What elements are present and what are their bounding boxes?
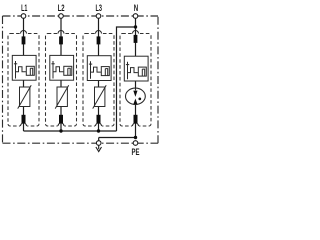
disconnector F9 (thermal, branch 4 bottom)	[134, 115, 138, 124]
module M1 enclosure (dashed box)	[8, 34, 39, 127]
wire N to common-bus bypass	[117, 27, 136, 131]
spark gap U4 (triggered spark gap with control circuit, branch 4)	[124, 56, 148, 81]
module M2 enclosure (dashed box)	[46, 34, 77, 127]
svg-text:L1: L1	[21, 3, 27, 13]
svg-text:PE: PE	[132, 147, 140, 157]
disconnector F4 (thermal, branch 4 top)	[134, 35, 138, 43]
spark gap U1 (triggered spark gap with control circuit, branch 1)	[12, 55, 36, 80]
wire PE line	[99, 137, 136, 139]
node bus-branch2 junction	[59, 129, 62, 132]
wire L3 branch vertical	[98, 18, 100, 131]
hop of module edge over branch 2 wire (top)	[58, 31, 64, 34]
module M4 enclosure (dashed box)	[120, 34, 151, 127]
disconnector F3 (thermal, branch 3 top)	[97, 36, 101, 44]
hop of module edge over branch 4 wire (top)	[133, 31, 139, 34]
device enclosure boundary (dash-dot)	[3, 16, 159, 143]
spark gap U3 (triggered spark gap with control circuit, branch 3)	[87, 56, 111, 81]
white gaps where wires hop module edges	[20, 32, 139, 127]
varistor RV1 (branch 1)	[18, 85, 32, 108]
varistor RV3 (branch 3)	[93, 85, 107, 108]
node N junction dot	[134, 25, 137, 28]
svg-text:L3: L3	[96, 3, 103, 13]
hop of module edge over branch 1 wire (top)	[21, 31, 27, 34]
disconnector F6 (thermal, branch 1 bottom)	[22, 115, 26, 124]
terminal earth	[96, 141, 101, 146]
svg-text:N: N	[134, 3, 138, 13]
disconnector F1 (thermal, branch 1 top)	[22, 36, 26, 44]
terminal L3	[96, 14, 101, 19]
hop of module edge over branch 1 wire (bottom)	[21, 123, 27, 126]
varistor RV2 (branch 2)	[55, 85, 68, 108]
hop of module edge over branch 4 wire (bottom)	[133, 123, 139, 126]
terminal PE	[133, 141, 138, 146]
module M3 enclosure (dashed box)	[83, 34, 114, 127]
wire earth drop	[98, 138, 100, 141]
terminal N	[133, 14, 138, 19]
disconnector F2 (thermal, branch 2 top)	[59, 36, 63, 44]
terminal L1	[21, 14, 26, 19]
disconnector F7 (thermal, branch 2 bottom)	[59, 115, 63, 124]
disconnector F8 (thermal, branch 3 bottom)	[97, 115, 101, 124]
N-PE spark gap F5 (encapsulated, branch 4)	[125, 88, 145, 104]
spark gap U2 (triggered spark gap with control circuit, branch 2)	[50, 55, 74, 80]
wire common bus	[24, 130, 117, 132]
wire L1 branch vertical	[23, 18, 25, 131]
node branch4-PE junction dot	[134, 136, 137, 139]
wire L2 branch vertical	[60, 18, 62, 131]
svg-text:L2: L2	[58, 3, 65, 13]
earth electrode arrow	[96, 146, 102, 152]
terminal L2	[59, 14, 64, 19]
hop of module edge over branch 3 wire (top)	[96, 31, 102, 34]
hop of module edge over branch 3 wire (bottom)	[96, 123, 102, 126]
node bus-branch3 junction	[97, 129, 100, 132]
wire N branch vertical	[135, 18, 137, 137]
hop of module edge over branch 2 wire (bottom)	[58, 123, 64, 126]
